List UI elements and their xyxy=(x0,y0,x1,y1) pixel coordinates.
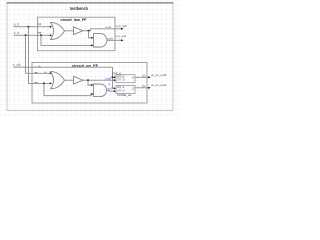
arrow into FF1 C xyxy=(114,76,116,78)
background grid xyxy=(0,0,180,118)
svg-text:Q5: Q5 xyxy=(142,74,146,78)
arrow into AND1 lower input xyxy=(91,44,93,46)
wire net s_b horizontal xyxy=(14,34,52,36)
arrow into AND2 upper input xyxy=(91,84,93,86)
testbench outer boundary box xyxy=(7,3,174,111)
arrow into AND1 upper input xyxy=(91,37,93,39)
junction on s_b feedback xyxy=(40,34,42,36)
AND gate G6 xyxy=(94,84,107,97)
arrow end of net w_lv_out5 xyxy=(121,28,124,30)
flip-flop FF2 box xyxy=(116,85,135,97)
arrow into AND2 lower input xyxy=(91,93,93,95)
svg-text:w_on_out5: w_on_out5 xyxy=(151,73,166,77)
arrow into FF2 C xyxy=(114,87,116,89)
wire OR1 out to buffer xyxy=(65,30,74,32)
OR gate G4 xyxy=(51,72,65,89)
svg-text:out5: out5 xyxy=(107,37,113,41)
wire FF2 Q exit xyxy=(135,87,149,89)
junction after buffer2 xyxy=(87,79,89,81)
junction clk at FF1 xyxy=(112,76,114,78)
wire OR2 out to buffer xyxy=(65,79,74,81)
wire clk stub to FF1 C xyxy=(113,76,116,78)
pin label b bottom xyxy=(35,82,36,83)
svg-text:s_clk: s_clk xyxy=(13,63,21,67)
wire buffer2 drop to AND2 upper input xyxy=(88,80,92,85)
arrow into FF1 D xyxy=(114,79,116,81)
wire buffer2 out to FF1 D xyxy=(83,79,115,81)
junction on s_b left xyxy=(25,34,27,36)
wire branch s_b vertical down xyxy=(26,35,51,73)
svg-text:circuit_low_FF: circuit_low_FF xyxy=(61,17,88,22)
arrow into OR2 lower input xyxy=(50,82,52,84)
arrow end of net w_on_out1 xyxy=(148,87,151,89)
svg-text:Q: Q xyxy=(132,76,134,80)
svg-text:DFF_b1: DFF_b1 xyxy=(117,88,125,92)
arrow into FF2 D xyxy=(114,90,116,92)
arrow into OR1 upper input xyxy=(50,26,52,28)
svg-text:out5: out5 xyxy=(107,87,113,91)
wire AND1 out exit xyxy=(107,39,122,41)
svg-text:DFF_b5: DFF_b5 xyxy=(117,78,125,82)
arrow into OR1 lower input xyxy=(50,34,52,36)
svg-text:out5: out5 xyxy=(105,76,112,80)
OR gate G1 xyxy=(51,22,65,39)
svg-text:w_lv_out1: w_lv_out1 xyxy=(116,34,127,38)
svg-text:FDRE_a1: FDRE_a1 xyxy=(117,93,132,97)
wire net s_clk horizontal xyxy=(14,66,113,68)
svg-text:s_b: s_b xyxy=(14,31,20,35)
junction on a_b xyxy=(27,26,29,28)
svg-text:w_on_out1: w_on_out1 xyxy=(151,83,166,87)
svg-text:Q1: Q1 xyxy=(142,84,146,88)
wire branch a_b vertical down xyxy=(29,27,51,84)
buffer G2 triangle xyxy=(74,27,84,35)
buffer G5 triangle xyxy=(74,76,84,84)
junction after buffer xyxy=(88,30,90,32)
arrow end of net w_lv_out1 xyxy=(121,39,124,41)
wire buffer drop to AND1 upper input xyxy=(89,31,93,38)
pin label a xyxy=(38,23,39,24)
wire AND2 out to FF2 D xyxy=(107,89,116,92)
svg-text:a_b: a_b xyxy=(14,23,20,27)
arrow end of net w_on_out5 xyxy=(148,76,151,78)
arrow into OR2 upper input xyxy=(50,72,52,74)
pin label b xyxy=(38,32,39,33)
wire FF1 Q exit xyxy=(135,76,149,78)
AND gate G3 xyxy=(94,34,108,47)
pin label a bottom xyxy=(35,72,36,73)
svg-text:testbench: testbench xyxy=(70,6,88,11)
svg-text:w_lv_out5: w_lv_out5 xyxy=(116,24,127,28)
wire out1 jog and exit xyxy=(91,29,123,31)
wire feedback bottom to AND2 lower input xyxy=(44,83,92,95)
svg-text:out1: out1 xyxy=(106,25,112,29)
module U2 circuit_on_FF box xyxy=(32,63,147,104)
wire clk vertical to FFs xyxy=(113,67,116,88)
wire feedback b to AND1 xyxy=(41,35,92,45)
tiny mark near wire a xyxy=(45,72,46,73)
junction feedback on OR2 lower input wire xyxy=(43,82,45,84)
module U1 circuit_low_FF box xyxy=(38,17,116,51)
wire buffer out xyxy=(83,30,91,32)
wire net a_b horizontal xyxy=(14,26,52,28)
svg-text:Q: Q xyxy=(132,86,134,90)
flip-flop FF1 box xyxy=(112,71,135,82)
